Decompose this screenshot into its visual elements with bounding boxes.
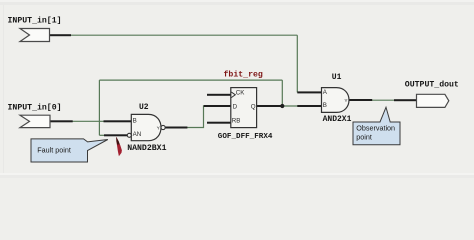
pin stub U1.Y output — [349, 99, 372, 101]
svg-text:Observation: Observation — [356, 123, 395, 132]
svg-text:GOF_DFF_FRX4: GOF_DFF_FRX4 — [218, 133, 273, 141]
fault lightning bolt — [116, 137, 122, 156]
nand gate U2 — [127, 114, 165, 140]
svg-text:U2: U2 — [139, 103, 149, 112]
wire net U2.Y to DFF.D — [187, 106, 206, 128]
input port INPUT_in[1] — [20, 29, 50, 42]
pin stub U2.AN — [104, 134, 127, 136]
svg-text:Fault point: Fault point — [37, 146, 71, 155]
svg-text:AN: AN — [133, 131, 142, 138]
svg-text:Q: Q — [251, 103, 256, 110]
svg-text:D: D — [233, 103, 238, 110]
wire net fbit_reg feedback top horizontal — [99, 79, 282, 81]
wire net INPUT_in[0] to U2.B — [72, 120, 105, 122]
flip-flop fbit_reg GOF_DFF_FRX4 — [231, 88, 257, 128]
svg-text:B: B — [323, 102, 327, 109]
wire net fbit_reg from Q to junction and U1.B — [280, 105, 298, 107]
svg-text:fbit_reg: fbit_reg — [224, 70, 263, 80]
svg-text:U1: U1 — [332, 73, 342, 82]
pin stub INPUT_in[1] port — [50, 34, 72, 36]
output port OUTPUT_dout — [417, 94, 449, 107]
svg-text:NAND2BX1: NAND2BX1 — [127, 144, 166, 153]
pin stub U1.A — [297, 91, 321, 93]
junction dot on fbit_reg net — [280, 104, 284, 108]
svg-text:AND2X1: AND2X1 — [323, 115, 352, 124]
fault bolt dark tip — [116, 137, 119, 145]
svg-text:INPUT_in[1]: INPUT_in[1] — [8, 16, 62, 26]
pin stub DFF.Q — [257, 105, 281, 107]
pin stub OUTPUT_dout port — [394, 99, 417, 101]
wire net fbit_reg junction vertical — [281, 80, 283, 106]
wire net fbit_reg feedback to U2.AN — [99, 134, 105, 136]
svg-text:OUTPUT_dout: OUTPUT_dout — [405, 80, 459, 90]
svg-text:INPUT_in[0]: INPUT_in[0] — [8, 103, 62, 113]
wire net INPUT_in[1] horizontal — [71, 34, 298, 36]
svg-text:B: B — [133, 117, 137, 124]
pin stub U2.B — [104, 120, 132, 122]
input port INPUT_in[0] — [20, 115, 50, 127]
pin stub DFF.D — [204, 105, 231, 107]
pin stub U1.B — [297, 105, 321, 107]
callout Fault point — [31, 139, 108, 162]
svg-text:CK: CK — [236, 90, 245, 97]
pin stub U2.Y output — [165, 127, 187, 129]
pin stub DFF.RB — [207, 122, 231, 124]
and gate U1 — [322, 88, 350, 113]
clock wedge DFF.CK — [231, 92, 235, 98]
wire net OUTPUT_dout — [372, 99, 396, 101]
pin stub DFF.CK — [207, 94, 231, 96]
wire net fbit_reg feedback left vertical — [98, 80, 100, 135]
svg-text:RB: RB — [232, 118, 241, 125]
pin stub INPUT_in[0] port — [50, 120, 73, 122]
callout Observation point — [353, 107, 400, 145]
wire net INPUT_in[1] vertical to U1.A — [296, 35, 298, 92]
svg-text:point: point — [356, 132, 372, 141]
